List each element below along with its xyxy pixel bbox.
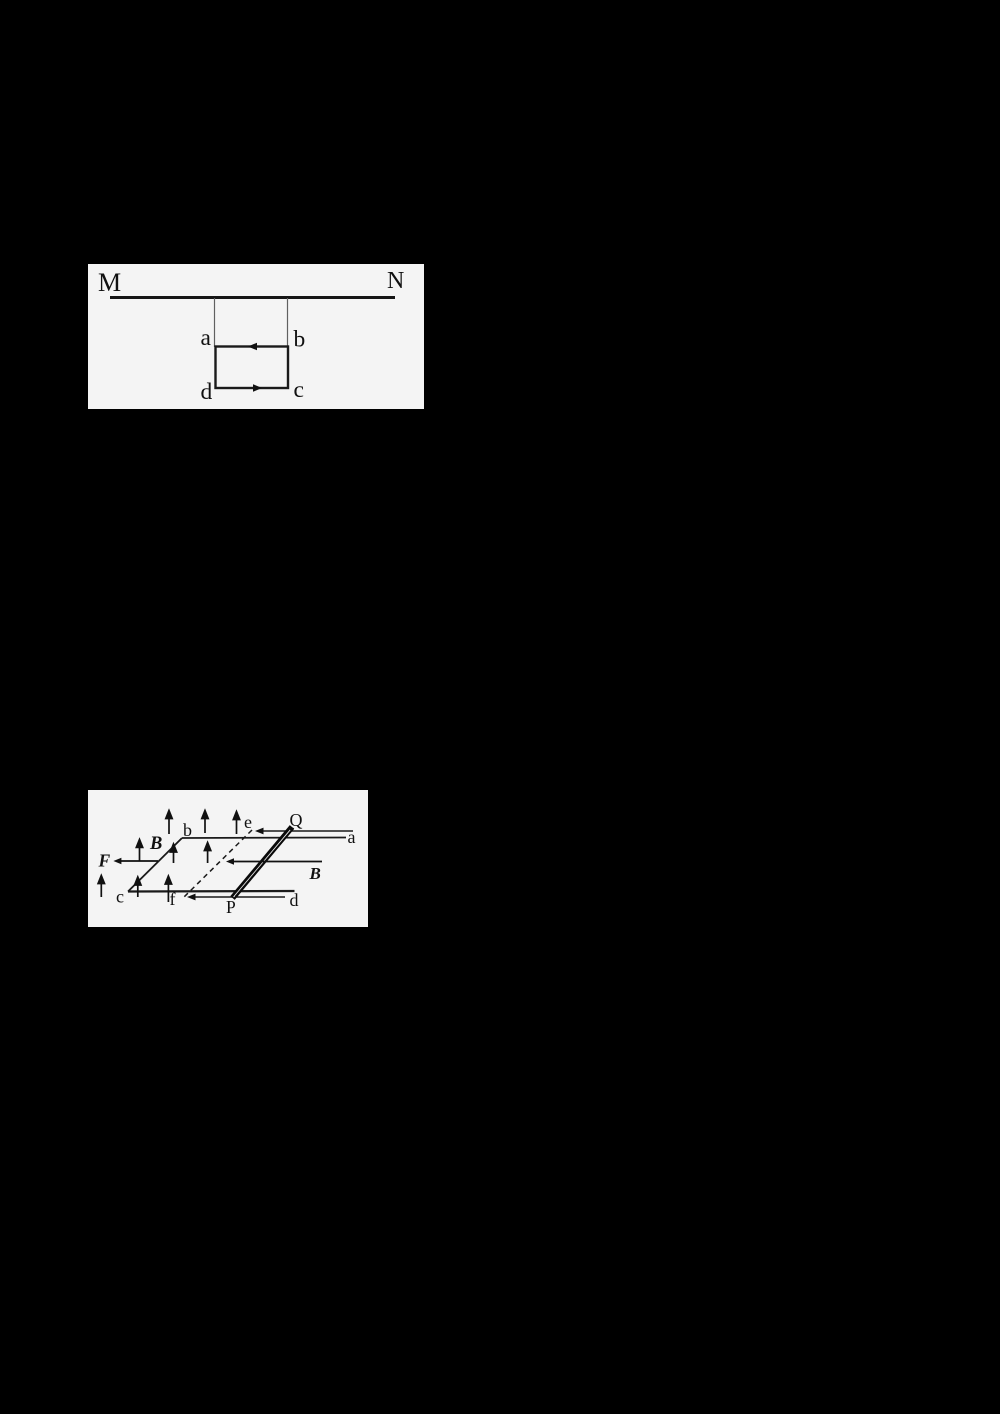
svg-text:P: P	[226, 897, 236, 917]
svg-text:b: b	[294, 327, 306, 353]
svg-text:F: F	[98, 851, 111, 871]
svg-text:c: c	[116, 887, 124, 907]
svg-text:B: B	[309, 864, 321, 883]
svg-text:a: a	[348, 827, 356, 847]
svg-text:N: N	[387, 268, 404, 294]
svg-text:Q: Q	[290, 810, 303, 830]
svg-text:B: B	[149, 834, 162, 854]
svg-text:d: d	[290, 890, 299, 910]
svg-text:b: b	[183, 820, 192, 840]
svg-text:f: f	[170, 889, 176, 909]
svg-text:e: e	[244, 812, 252, 832]
svg-text:c: c	[294, 377, 304, 403]
svg-text:M: M	[98, 268, 121, 297]
svg-text:d: d	[201, 379, 213, 405]
svg-text:a: a	[201, 325, 212, 351]
